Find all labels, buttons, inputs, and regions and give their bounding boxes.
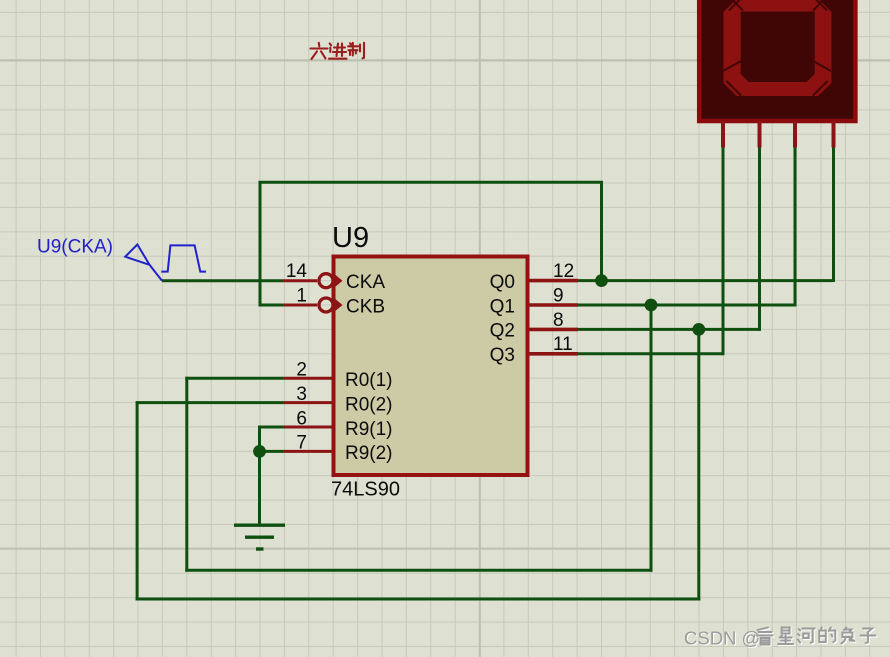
svg-text:U9(CKA): U9(CKA) (37, 237, 113, 258)
svg-text:CSDN @: CSDN @ (684, 628, 760, 649)
wire: Q2 net horizontal to display pin b (578, 328, 760, 331)
svg-text:2: 2 (296, 360, 307, 381)
junction dot at R9(2) / ground (253, 445, 266, 458)
segment separator X top-left (729, 0, 743, 10)
display pin 1 stub (721, 121, 725, 148)
clock bubble CKB (319, 298, 333, 312)
pin 11 Q3 stub (529, 352, 578, 356)
watermark CSDN @看星河的兔子 (684, 628, 877, 650)
wire: feedback rail vertical right down to Q0 node (600, 182, 603, 280)
junction dot at Q2 / bottom loop (692, 323, 705, 336)
segment separator mid-right (813, 61, 831, 71)
wire: CKB pin 1 stub wire (259, 304, 284, 307)
svg-text:R9(2): R9(2) (345, 443, 393, 464)
7-segment digit 0 ring (724, 0, 832, 96)
svg-text:3: 3 (296, 384, 307, 405)
char 进 (329, 44, 347, 59)
clock chevron CKA (334, 273, 343, 288)
char 六 (311, 43, 328, 59)
pin 8 Q2 stub (529, 328, 578, 332)
svg-text:12: 12 (553, 261, 574, 282)
clock chevron CKB (334, 298, 343, 313)
title text 六进制 (hexadecimal/six-ary) in red, drawn as strokes (311, 43, 365, 59)
wire: Q2 node vertical down (697, 329, 700, 600)
svg-text:6: 6 (296, 408, 307, 429)
segment separator bottom-right (813, 81, 828, 96)
svg-text:14: 14 (286, 261, 308, 282)
svg-text:Q1: Q1 (490, 296, 515, 317)
wire: Q1 net vertical up to R0(1) row (185, 377, 188, 572)
svg-text:R0(2): R0(2) (345, 394, 393, 415)
wire: R9(1) pin 6 horizontal (258, 426, 283, 429)
wire: feedback rail Q0 to CKB (vertical left at x=260) (259, 182, 262, 306)
wire: display pin a vertical (722, 147, 725, 356)
svg-text:74LS90: 74LS90 (331, 479, 400, 501)
pin 2 R0(1) stub (283, 377, 332, 380)
pin 3 R0(2) stub (283, 401, 332, 404)
segment separator bottom-left (727, 81, 742, 96)
wire: R9(2) pin 7 horizontal (258, 450, 283, 453)
7-segment display body (699, 0, 855, 121)
svg-text:U9: U9 (332, 222, 369, 254)
wire: R9 vertical to ground (258, 426, 261, 525)
char 制 (348, 43, 364, 59)
wire: Q1 node vertical down (650, 305, 653, 572)
wire: Q1 net horizontal to display pin c (578, 304, 795, 307)
wire: R0(1) pin 2 horizontal (185, 377, 283, 380)
segment separator mid-left (723, 61, 741, 71)
clock bubble CKA (319, 274, 333, 288)
svg-text:7: 7 (296, 433, 307, 454)
display pin 3 stub (793, 121, 797, 148)
svg-text:R0(1): R0(1) (345, 370, 393, 391)
wire: display pin b vertical (758, 147, 761, 331)
svg-text:1: 1 (296, 285, 307, 306)
svg-text:Q2: Q2 (490, 321, 515, 342)
junction dot at Q1 / bottom loop (645, 299, 658, 312)
svg-text:9: 9 (553, 285, 564, 306)
svg-text:CKB: CKB (346, 296, 385, 317)
svg-text:R9(1): R9(1) (345, 419, 393, 440)
display pin 4 stub (832, 121, 836, 148)
svg-text:8: 8 (553, 310, 564, 331)
svg-text:Q0: Q0 (490, 272, 515, 293)
pin 7 R9(2) stub (283, 450, 332, 453)
wire: Q0 net horizontal to display pin d (578, 279, 834, 282)
pin 12 Q0 stub (529, 279, 578, 283)
IC U9 74LS90 body (334, 257, 528, 476)
pin 6 R9(1) stub (283, 426, 332, 429)
wire: R0(2) pin 3 horizontal (136, 401, 283, 404)
display pin 2 stub (758, 121, 762, 148)
junction dot at Q0 / feedback rail (595, 274, 608, 287)
pin 1 CKB stub (283, 304, 317, 307)
ground symbol (234, 525, 285, 549)
svg-text:Q3: Q3 (490, 345, 515, 366)
wire: Q3 net horizontal to display pin a (578, 352, 723, 355)
clock source waveform (pulse) (161, 245, 206, 271)
wire: Q2 bottom rail to left (136, 598, 701, 601)
pin 14 CKA stub (283, 279, 317, 282)
wire: Q1 bottom rail to left (185, 569, 652, 572)
segment separator X top-right (813, 0, 827, 10)
clock source symbol (blue flag) (125, 245, 162, 281)
svg-text:CKA: CKA (346, 272, 385, 293)
wire: display pin d vertical (832, 147, 835, 283)
wire: Q2 net vertical up to R0(2) row (136, 401, 139, 600)
svg-text:11: 11 (553, 334, 573, 355)
pin 9 Q1 stub (529, 303, 578, 307)
wire: display pin c vertical (794, 147, 797, 307)
wire: feedback rail top horizontal y=182 (259, 181, 604, 184)
wire: clock source to CKA pin 14 (162, 279, 283, 282)
